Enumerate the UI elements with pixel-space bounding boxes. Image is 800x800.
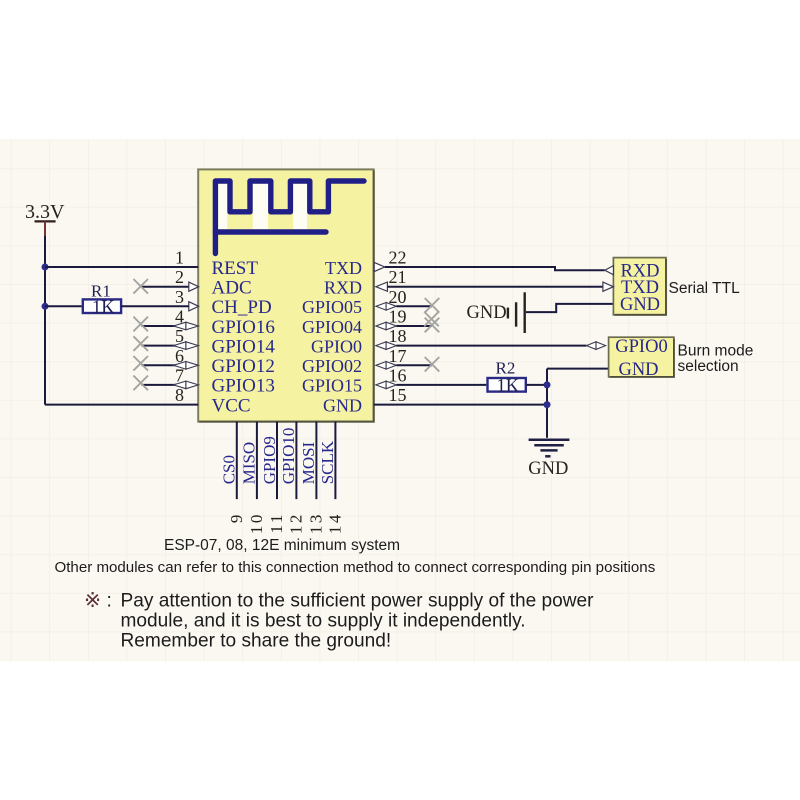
op IC U1 ESP module body [198, 169, 374, 421]
junction dot rail/R1 [42, 303, 49, 310]
svg-text:GND: GND [620, 295, 660, 315]
svg-text:GPIO0: GPIO0 [615, 337, 667, 357]
arrow bidirectional at burn-mode header [587, 342, 597, 350]
pin 3 CH_PD (left) [175, 287, 272, 318]
pin 22 TXD (right) [325, 248, 407, 278]
svg-text:21: 21 [389, 267, 407, 287]
svg-text:VCC: VCC [212, 395, 251, 416]
svg-text:Serial TTL: Serial TTL [669, 280, 741, 297]
pin 15 GND (right) [323, 385, 407, 415]
svg-text:Remember to share the ground!: Remember to share the ground! [121, 630, 392, 651]
wire pin 17 stub with no-ERC mark [396, 357, 439, 372]
svg-text:GPIO13: GPIO13 [212, 376, 275, 397]
svg-text:1: 1 [175, 248, 184, 268]
svg-text:11: 11 [267, 512, 286, 533]
wire GND node to burn-mode GND [547, 368, 609, 370]
svg-text:1K: 1K [497, 376, 520, 396]
svg-text:MOSI: MOSI [299, 441, 318, 484]
wire pin18 GPIO0 to burn-mode header [396, 345, 586, 347]
wire GND node vertical [546, 369, 548, 438]
svg-text:Other modules can refer to thi: Other modules can refer to this connecti… [55, 559, 656, 576]
wire 3.3V to pin1 REST [45, 266, 198, 268]
pin 20 GPIO05 (right) [302, 287, 407, 317]
schematic sheet background [0, 139, 800, 662]
pin 4 GPIO16 (left) [133, 307, 274, 338]
svg-text:GPIO12: GPIO12 [212, 356, 275, 377]
svg-text:3: 3 [175, 287, 184, 307]
svg-text:Pay attention to the sufficien: Pay attention to the sufficient power su… [121, 590, 595, 611]
ground symbol GND (serial TTL) [467, 292, 525, 333]
pin 8 VCC (left) [175, 385, 251, 416]
junction dot pin15/GND node [544, 401, 551, 408]
svg-text:ESP-07, 08, 12E minimum system: ESP-07, 08, 12E minimum system [164, 537, 400, 554]
pin 16 GPIO15 (right) [302, 365, 407, 395]
svg-text:selection: selection [678, 358, 739, 375]
connector burn-mode header GPIO0/GND [609, 337, 674, 380]
svg-text:GPIO02: GPIO02 [302, 356, 362, 376]
svg-text:GPIO0: GPIO0 [311, 336, 362, 356]
svg-text:2: 2 [175, 267, 184, 287]
svg-text:GPIO16: GPIO16 [212, 317, 275, 338]
svg-text:GPIO10: GPIO10 [279, 428, 298, 485]
svg-text:Burn mode: Burn mode [678, 342, 754, 359]
pin 17 GPIO02 (right) [302, 346, 407, 376]
svg-text:REST: REST [212, 258, 259, 279]
resistor R2 1K [488, 358, 526, 396]
resistor R1 1K [83, 281, 121, 318]
antenna meander (PCB antenna symbol) [215, 181, 364, 254]
svg-text:ADC: ADC [212, 278, 252, 299]
svg-text:GPIO15: GPIO15 [302, 376, 362, 396]
pin 9 CS0 (bottom) [220, 422, 246, 523]
wire 3.3V vertical rail [44, 236, 46, 405]
pin 12 GPIO10 (bottom) [279, 422, 305, 534]
svg-text:CH_PD: CH_PD [212, 297, 272, 318]
arrow into serial TXD [603, 282, 614, 291]
wire pin16 GPIO15 to R2 [396, 384, 486, 386]
pin 6 GPIO12 (left) [133, 346, 274, 377]
label Burn mode selection [678, 342, 754, 375]
pin 2 ADC (left) [133, 267, 251, 298]
pin 1 REST (left) [175, 248, 258, 279]
arrow into serial RXD [605, 266, 614, 275]
wire R2 to GND node [527, 384, 548, 386]
wire pin15 GND to GND node [374, 404, 547, 406]
pin 13 MOSI (bottom) [299, 422, 325, 534]
wire R1 to pin3 CH_PD [121, 305, 189, 307]
power symbol 3.3V [25, 201, 65, 237]
wire pin21 RXD to serial TXD [387, 286, 603, 288]
pin 7 GPIO13 (left) [133, 365, 274, 396]
svg-text:GPIO14: GPIO14 [212, 336, 276, 357]
pin 5 GPIO14 (left) [133, 326, 275, 357]
svg-text:3.3V: 3.3V [25, 201, 65, 223]
svg-text:9: 9 [227, 512, 246, 523]
svg-text:module, and it is best to supp: module, and it is best to supply it inde… [121, 610, 526, 631]
svg-text:※: ※ [84, 589, 101, 612]
svg-text:8: 8 [175, 385, 184, 405]
svg-text:GPIO9: GPIO9 [260, 436, 279, 484]
junction dot rail/pin1 [42, 264, 49, 271]
svg-text:GPIO05: GPIO05 [302, 297, 362, 317]
svg-text:22: 22 [389, 248, 407, 268]
pin 11 GPIO9 (bottom) [260, 422, 286, 534]
svg-text:TXD: TXD [325, 258, 362, 278]
wire pin 19 stub with no-ERC mark [396, 312, 439, 333]
note text [84, 589, 594, 652]
pin 19 GPIO04 (right) [302, 307, 407, 337]
svg-text:GND: GND [467, 303, 507, 323]
svg-text:15: 15 [389, 385, 407, 405]
svg-text:1K: 1K [92, 298, 115, 318]
svg-text:CS0: CS0 [220, 455, 239, 484]
svg-text:GPIO04: GPIO04 [302, 317, 362, 337]
svg-text:SCLK: SCLK [318, 440, 337, 484]
pin 14 SCLK (bottom) [318, 422, 344, 534]
svg-text:MISO: MISO [240, 442, 259, 485]
wire rail to R1 [45, 305, 82, 307]
svg-text::: : [107, 590, 112, 611]
pin 21 RXD (right) [324, 267, 407, 297]
connector Serial TTL header [613, 258, 666, 316]
pin 10 MISO (bottom) [240, 422, 266, 534]
pin 18 GPIO0 (right) [311, 326, 407, 356]
svg-text:GND: GND [323, 395, 362, 415]
wire pin22 TXD to serial RXD [385, 267, 605, 270]
svg-text:10: 10 [247, 512, 266, 534]
wire 3.3V to pin8 VCC [45, 404, 198, 406]
svg-text:14: 14 [325, 512, 344, 534]
wire ground symbol to serial GND [526, 304, 614, 312]
svg-text:GND: GND [618, 360, 658, 380]
svg-text:RXD: RXD [324, 278, 362, 298]
ground symbol GND (earth, below R2) [528, 440, 569, 479]
svg-text:13: 13 [306, 512, 325, 534]
svg-text:12: 12 [286, 512, 305, 534]
svg-text:GND: GND [528, 459, 568, 479]
svg-text:R2: R2 [496, 358, 516, 377]
wire pin 20 stub with no-ERC mark [396, 298, 439, 313]
junction dot R2/GND node [544, 381, 551, 388]
